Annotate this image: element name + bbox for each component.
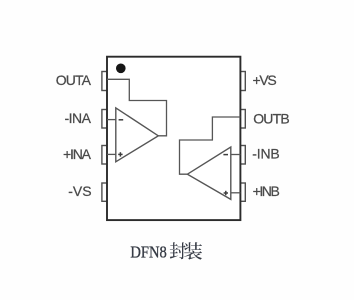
svg-text:+VS: +VS xyxy=(253,72,277,88)
svg-text:-INA: -INA xyxy=(65,110,92,126)
svg-text:-INB: -INB xyxy=(252,146,279,162)
svg-text:+INB: +INB xyxy=(253,183,280,199)
svg-text:-VS: -VS xyxy=(68,183,91,199)
svg-text:OUTA: OUTA xyxy=(56,72,92,88)
svg-text:DFN8: DFN8 xyxy=(130,243,166,262)
svg-text:+INA: +INA xyxy=(63,146,92,162)
svg-text:OUTB: OUTB xyxy=(253,111,290,127)
